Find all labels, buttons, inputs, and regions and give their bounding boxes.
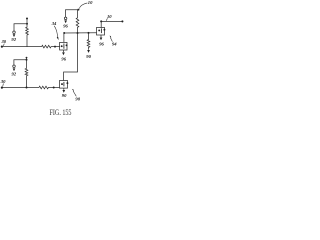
junction dot gate B node xyxy=(53,87,55,89)
resistor R (horizontal, gate A) xyxy=(42,45,60,48)
svg-text:96: 96 xyxy=(63,24,68,29)
Q-C left dot xyxy=(98,29,100,31)
wire stub lower branch xyxy=(26,58,28,60)
arrowhead of 34 leader xyxy=(57,37,59,40)
terminal dot top of lower-left resistor branch xyxy=(26,57,28,59)
svg-text:96: 96 xyxy=(61,56,66,61)
svg-text:94: 94 xyxy=(112,42,117,47)
arrowhead of 94 leader xyxy=(110,36,112,39)
Q-B right dot xyxy=(66,82,68,84)
wire top-left supply rail xyxy=(66,10,79,18)
svg-text:10: 10 xyxy=(88,0,93,5)
leader from 30 to bus xyxy=(3,44,4,46)
node dot left end of gate bus xyxy=(1,46,3,48)
wire top-right supply rail xyxy=(101,20,122,22)
svg-text:30: 30 xyxy=(1,39,7,44)
wire source arrow below Q-A xyxy=(62,50,64,52)
node dot left end right rail xyxy=(100,20,102,22)
wire source arrow below Q-C xyxy=(100,35,102,37)
Q-C right dot xyxy=(103,29,105,31)
node dot on supply rail xyxy=(77,9,79,11)
svg-text:10: 10 xyxy=(107,14,112,19)
arrowhead below Q-A xyxy=(62,52,65,55)
terminal circle upper-left input xyxy=(13,31,16,34)
Q-A channel bar xyxy=(63,44,65,49)
node dot left end of lower bus xyxy=(1,87,3,89)
leader from lower 30 to bus xyxy=(2,84,5,87)
terminal dot top of left resistor branch xyxy=(26,18,28,20)
svg-text:98: 98 xyxy=(75,97,80,102)
wire source arrow below Q-B xyxy=(63,88,65,90)
junction dot lower input corner xyxy=(26,59,28,61)
wire gate bus of Q-A (y=46.6) xyxy=(2,46,42,48)
resistor R (x=77.5, from rail to bus) xyxy=(76,10,79,33)
Q-B channel bar xyxy=(63,82,65,87)
transistor Q-A box xyxy=(60,42,67,50)
leader curve from 34 xyxy=(54,26,57,38)
svg-text:30: 30 xyxy=(0,79,6,84)
node dot right end right rail xyxy=(121,20,123,22)
arrowhead lower-left input xyxy=(13,68,16,71)
wire drain of Q-C xyxy=(100,21,102,27)
svg-text:92: 92 xyxy=(11,37,16,42)
junction dot gate A node xyxy=(54,46,56,48)
junction dot bus/resistor x=77.5 xyxy=(77,32,79,34)
svg-text:96: 96 xyxy=(99,42,104,47)
resistor R (x=27 upper) xyxy=(26,24,29,47)
wire gate bus of Q-B (y=87.5) xyxy=(2,87,39,89)
leader curve from 94 xyxy=(110,38,112,42)
Q-C channel bar xyxy=(100,28,102,33)
transistor Q-C box xyxy=(97,28,105,36)
wire input branch upper-left xyxy=(14,24,27,31)
terminal circle of left supply arrow xyxy=(64,17,67,20)
wire bus y=33 xyxy=(64,32,97,34)
leader from right 10 to rail xyxy=(106,18,107,21)
Q-B left dot xyxy=(61,83,63,85)
transistor Q-B box xyxy=(60,81,68,89)
arrowhead of left supply terminal xyxy=(64,20,67,23)
svg-text:92: 92 xyxy=(12,72,17,77)
wire drain of Q-A from bus xyxy=(63,33,65,42)
junction dot input/resistor xyxy=(26,23,28,25)
junction dot lower bus / resistor xyxy=(26,87,28,89)
resistor R (x=26.5 lower) xyxy=(25,60,28,88)
leader curve from 98 xyxy=(73,91,76,96)
svg-text:90: 90 xyxy=(86,54,91,59)
Q-A left dot xyxy=(61,45,63,47)
wire stub from terminal dot xyxy=(26,19,28,24)
resistor R (horizontal, gate B) xyxy=(39,86,60,89)
svg-text:90: 90 xyxy=(62,93,67,98)
Q-A right dot xyxy=(66,44,68,46)
wire drain staircase to Q-B xyxy=(64,33,78,81)
resistor R (x=88.5 with arrow to 90) xyxy=(87,33,90,50)
leader to label 10 (left) xyxy=(79,3,87,9)
arrowhead below Q-B xyxy=(62,90,65,93)
svg-text:34: 34 xyxy=(51,21,57,26)
junction dot bus/drain A xyxy=(63,32,65,34)
terminal circle lower-left input xyxy=(13,65,16,68)
wire input branch lower-left xyxy=(14,60,27,65)
arrowhead of 98 leader xyxy=(72,89,74,92)
svg-text:FIG. 155: FIG. 155 xyxy=(50,108,72,117)
junction dot bus/resistor x=88.5 xyxy=(88,32,90,34)
arrowhead below Q-C xyxy=(100,38,103,41)
arrowhead upper-left input xyxy=(13,34,16,37)
arrowhead below resistor x=88.5 xyxy=(87,50,90,53)
